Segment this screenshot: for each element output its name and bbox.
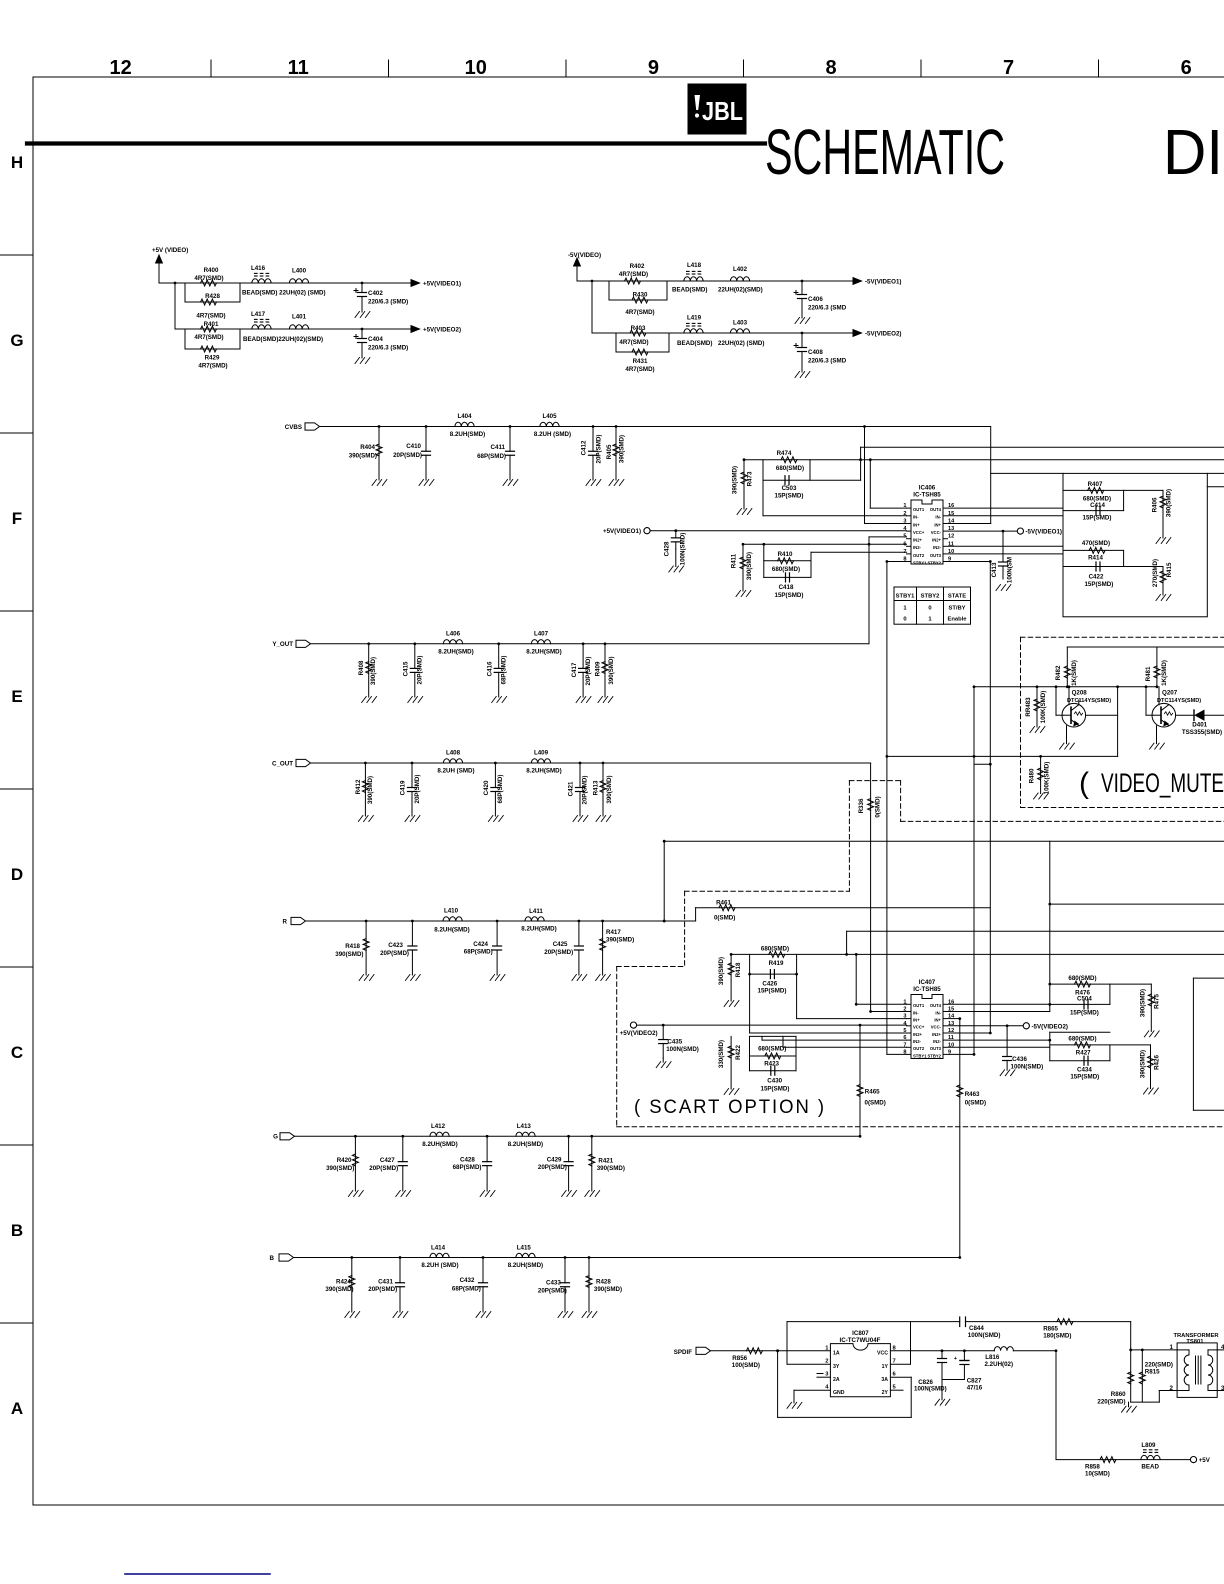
svg-text:C434: C434 [1077,1067,1092,1074]
svg-text:L404: L404 [457,413,472,420]
svg-text:IN2+: IN2+ [913,1032,923,1037]
svg-text:20P(SMD): 20P(SMD) [368,1286,397,1293]
svg-text:OUT2: OUT2 [913,553,925,558]
svg-text:R431: R431 [633,358,648,365]
svg-text:390(SMD): 390(SMD) [594,1286,622,1293]
svg-text:390(SMD): 390(SMD) [619,435,626,463]
svg-text:220/6.3 (SMD): 220/6.3 (SMD) [368,299,408,306]
svg-text:L407: L407 [534,630,549,637]
svg-text:100N(SM: 100N(SM [1007,557,1014,583]
svg-text:10(SMD): 10(SMD) [1085,1471,1110,1478]
svg-text:D401: D401 [1192,722,1207,729]
svg-text:1: 1 [928,617,932,623]
svg-text:L413: L413 [517,1123,532,1130]
svg-text:R461: R461 [716,900,731,907]
svg-text:3A: 3A [881,1377,888,1383]
svg-text:22UH(02) (SMD): 22UH(02) (SMD) [718,340,764,347]
svg-text:2: 2 [1170,1385,1174,1392]
svg-text:L412: L412 [431,1123,446,1130]
svg-text:IN2-: IN2- [933,1039,942,1044]
svg-text:C433: C433 [546,1279,561,1286]
svg-text:15P(SMD): 15P(SMD) [775,493,804,500]
svg-text:R427: R427 [1076,1050,1091,1057]
svg-text:(: ( [1079,767,1089,800]
svg-text:470(SMD): 470(SMD) [1082,540,1110,547]
svg-text:220/6.3 (SMD: 220/6.3 (SMD [808,358,847,365]
svg-text:4R7(SMD): 4R7(SMD) [619,271,648,278]
svg-text:L415: L415 [517,1245,532,1252]
svg-text:R473: R473 [747,471,754,486]
svg-text:220(SMD): 220(SMD) [1145,1362,1173,1369]
svg-text:C428: C428 [460,1156,475,1163]
svg-text:R408: R408 [358,660,365,675]
svg-text:R336: R336 [858,798,865,813]
svg-text:R856: R856 [732,1355,747,1362]
svg-text:R411: R411 [731,553,738,568]
svg-text:C430: C430 [767,1078,782,1085]
svg-text:TRANSFORMER: TRANSFORMER [1173,1333,1219,1339]
svg-text:R424: R424 [336,1278,351,1285]
svg-text:C408: C408 [808,349,823,356]
svg-text:100N(SMD): 100N(SMD) [680,533,687,566]
svg-text:STBY1: STBY1 [913,560,927,565]
svg-text:BEAD(SMD) 22UH(02) (SMD): BEAD(SMD) 22UH(02) (SMD) [242,290,326,297]
svg-text:68P(SMD): 68P(SMD) [477,453,506,460]
svg-text:VCC+: VCC+ [913,1025,925,1030]
svg-text:R401: R401 [204,321,219,328]
svg-text:L816: L816 [985,1354,1000,1361]
svg-text:20P(SMD): 20P(SMD) [544,949,573,956]
svg-text:C421: C421 [568,781,575,796]
svg-text:4R7(SMD): 4R7(SMD) [194,334,223,341]
svg-text:R414: R414 [1088,555,1103,562]
svg-text:L402: L402 [733,266,748,273]
svg-text:100N(SMD): 100N(SMD) [1011,1064,1044,1071]
svg-text:OUT2: OUT2 [913,1046,925,1051]
svg-text:OUT3: OUT3 [930,553,942,558]
svg-text:4R7(SMD): 4R7(SMD) [625,366,654,373]
svg-text:8.2UH(SMD): 8.2UH(SMD) [422,1141,457,1148]
svg-text:7: 7 [893,1359,896,1365]
svg-text:390(SMD): 390(SMD) [718,957,725,985]
svg-text:47/16: 47/16 [967,1385,983,1392]
svg-text:STBY2: STBY2 [928,560,942,565]
svg-text:-5V(VIDEO2): -5V(VIDEO2) [865,331,901,338]
svg-text:C424: C424 [473,941,488,948]
svg-text:( SCART OPTION ): ( SCART OPTION ) [634,1097,826,1118]
svg-text:IC407: IC407 [919,979,936,986]
svg-text:C427: C427 [380,1157,395,1164]
svg-text:L409: L409 [534,750,549,757]
svg-text:390(SMD): 390(SMD) [1139,989,1146,1017]
svg-text:C413: C413 [991,562,998,577]
svg-text:R860: R860 [1111,1391,1126,1398]
svg-text:100N(SMD): 100N(SMD) [666,1046,699,1053]
svg-text:12: 12 [109,57,131,79]
svg-text:0(SMD): 0(SMD) [875,796,882,817]
svg-text:+5V: +5V [1199,1457,1211,1464]
svg-text:E: E [11,687,22,706]
svg-text:20P(SMD): 20P(SMD) [596,435,603,464]
svg-text:R421: R421 [598,1158,613,1165]
svg-text:680(SMD): 680(SMD) [772,566,800,573]
svg-text:R403: R403 [631,325,646,332]
svg-text:TS801: TS801 [1186,1339,1204,1345]
svg-text:R430: R430 [633,292,648,299]
svg-text:15P(SMD): 15P(SMD) [1070,1010,1099,1017]
svg-text:0: 0 [928,606,931,612]
svg-text:0(SMD): 0(SMD) [714,915,735,922]
svg-text:100N(SMD): 100N(SMD) [914,1386,947,1393]
svg-text:STBY1: STBY1 [896,594,915,600]
svg-text:L405: L405 [542,413,557,420]
svg-text:C436: C436 [1012,1056,1027,1063]
svg-text:G: G [10,331,23,350]
svg-text:C420: C420 [483,780,490,795]
svg-text:IN2+: IN2+ [932,1032,942,1037]
svg-text:Enable: Enable [947,617,967,623]
svg-text:1: 1 [903,606,907,612]
svg-text:L410: L410 [444,908,459,915]
svg-text:68P(SMD): 68P(SMD) [453,1164,482,1171]
svg-text:330(SMD): 330(SMD) [718,1040,725,1068]
svg-text:20P(SMD): 20P(SMD) [538,1164,567,1171]
svg-text:STBY2: STBY2 [921,594,940,600]
svg-text:F: F [12,509,22,528]
svg-text:L408: L408 [446,750,461,757]
svg-text:2Y: 2Y [882,1390,889,1396]
svg-text:68P(SMD): 68P(SMD) [500,656,507,685]
svg-text:C423: C423 [388,942,403,949]
svg-text:TSS355(SMD): TSS355(SMD) [1182,729,1222,736]
svg-text:RR483: RR483 [1025,697,1032,717]
svg-text:DTC114YS(SMD): DTC114YS(SMD) [1157,698,1201,704]
svg-text:15P(SMD): 15P(SMD) [775,592,804,599]
svg-text:10: 10 [465,57,487,79]
svg-text:1K(SMD): 1K(SMD) [1071,660,1078,686]
svg-text:STBY1: STBY1 [913,1053,927,1058]
svg-text:C410: C410 [406,443,421,450]
svg-text:R428: R428 [596,1278,611,1285]
svg-text:+: + [954,1356,957,1362]
svg-text:R: R [283,918,288,925]
svg-text:680(SMD): 680(SMD) [761,946,789,953]
svg-text:390(SMD): 390(SMD) [326,1165,354,1172]
svg-text:L400: L400 [292,268,307,275]
svg-text:180(SMD): 180(SMD) [1043,1333,1071,1340]
svg-text:+5V(VIDEO1): +5V(VIDEO1) [423,281,461,288]
svg-text:390(SMD): 390(SMD) [1166,489,1173,517]
svg-text:R426: R426 [1154,1055,1161,1070]
svg-text:20P(SMD): 20P(SMD) [393,452,422,459]
svg-text:R480: R480 [1029,768,1036,783]
svg-text:R409: R409 [595,661,602,676]
svg-text:R413: R413 [593,780,600,795]
svg-text:0(SMD): 0(SMD) [965,1100,986,1107]
svg-text:R815: R815 [1145,1369,1160,1376]
svg-text:L416: L416 [251,265,266,272]
svg-text:IC406: IC406 [919,485,936,492]
svg-text:IN2+: IN2+ [932,538,942,543]
svg-text:C844: C844 [969,1325,984,1332]
svg-text:C827: C827 [967,1378,982,1385]
svg-text:L419: L419 [687,315,702,322]
svg-text:15P(SMD): 15P(SMD) [761,1086,790,1093]
svg-text:22UH(02)(SMD): 22UH(02)(SMD) [718,287,763,294]
svg-text:L403: L403 [733,320,748,327]
svg-text:DI: DI [1163,116,1223,188]
svg-text:STBY2: STBY2 [928,1053,942,1058]
svg-text:JBL: JBL [702,96,743,126]
svg-text:680(SMD): 680(SMD) [1068,975,1096,982]
svg-text:68P(SMD): 68P(SMD) [452,1285,481,1292]
svg-text:IN2+: IN2+ [913,538,923,543]
svg-text:+5V(VIDEO2): +5V(VIDEO2) [620,1030,658,1037]
svg-text:Q207: Q207 [1162,690,1178,697]
svg-text:11: 11 [288,57,309,79]
svg-text:100K(SMD): 100K(SMD) [1040,691,1047,724]
svg-text:A: A [11,1399,23,1418]
svg-text:R412: R412 [355,779,362,794]
svg-text:8: 8 [825,57,836,79]
svg-text:R410: R410 [778,551,793,558]
svg-text:R418: R418 [735,962,742,977]
svg-text:20P(SMD): 20P(SMD) [417,656,424,685]
svg-text:C428: C428 [664,541,671,556]
svg-text:ST/BY: ST/BY [948,606,965,612]
svg-text:680(SMD): 680(SMD) [776,465,804,472]
svg-text:+5V(VIDEO1): +5V(VIDEO1) [603,528,641,535]
svg-text:L418: L418 [687,262,702,269]
svg-text:L417: L417 [251,311,266,318]
svg-text:390(SMD): 390(SMD) [597,1165,625,1172]
svg-text:1: 1 [1170,1344,1174,1351]
svg-text:OUT1: OUT1 [913,507,925,512]
svg-text:IN-: IN- [913,1010,919,1015]
svg-text:8.2UH(SMD): 8.2UH(SMD) [438,648,473,655]
svg-text:R417: R417 [606,929,621,936]
svg-text:VCC+: VCC+ [913,530,925,535]
svg-text:C422: C422 [1089,574,1104,581]
svg-text:2A: 2A [833,1377,840,1383]
svg-text:OUT1: OUT1 [913,1003,925,1008]
svg-text:C504: C504 [1077,995,1092,1002]
svg-text:-5V(VIDEO): -5V(VIDEO) [568,252,601,259]
svg-text:8.2UH (SMD): 8.2UH (SMD) [421,1262,458,1269]
svg-text:8.2UH(SMD): 8.2UH(SMD) [450,431,485,438]
svg-text:C416: C416 [487,661,494,676]
svg-text:L401: L401 [292,314,307,321]
svg-text:BEAD(SMD)22UH(02)(SMD): BEAD(SMD)22UH(02)(SMD) [243,336,323,343]
svg-text:R428: R428 [205,293,220,300]
svg-text:4R7(SMD): 4R7(SMD) [194,275,223,282]
svg-text:R418: R418 [345,943,360,950]
svg-text:C_OUT: C_OUT [272,760,293,767]
svg-text:IN+: IN+ [934,522,941,527]
svg-text:STATE: STATE [948,594,966,600]
svg-text:R407: R407 [1088,481,1103,488]
svg-text:R423: R423 [764,1061,779,1068]
svg-text:BEAD: BEAD [1141,1464,1159,1471]
svg-text:390(SMD): 390(SMD) [367,776,374,804]
svg-text:15P(SMD): 15P(SMD) [1070,1074,1099,1081]
svg-text:B: B [11,1221,23,1240]
svg-text:R420: R420 [337,1157,352,1164]
svg-text:C417: C417 [571,662,578,677]
svg-text:R422: R422 [735,1045,742,1060]
svg-text:C426: C426 [762,981,777,988]
svg-text:R858: R858 [1085,1464,1100,1471]
svg-text:-5V(VIDEO1): -5V(VIDEO1) [865,279,901,286]
svg-text:C404: C404 [368,336,383,343]
svg-text:20P(SMD): 20P(SMD) [380,950,409,957]
svg-text:R474: R474 [777,450,792,457]
svg-text:4R7(SMD): 4R7(SMD) [196,313,225,320]
svg-text:100N(SMD): 100N(SMD) [968,1332,1001,1339]
svg-text:220/6.3 (SMD: 220/6.3 (SMD [808,305,847,312]
svg-text:IN-: IN- [913,515,919,520]
svg-text:+5V(VIDEO2): +5V(VIDEO2) [423,327,461,334]
svg-text:20P(SMD): 20P(SMD) [414,775,421,804]
svg-text:68P(SMD): 68P(SMD) [464,948,493,955]
svg-text:+5V (VIDEO): +5V (VIDEO) [152,247,188,254]
svg-text:C415: C415 [403,661,410,676]
svg-text:SCHEMATIC: SCHEMATIC [765,116,1005,188]
svg-text:C414: C414 [1090,502,1105,509]
svg-text:VCC: VCC [877,1351,888,1357]
svg-text:OUT3: OUT3 [930,1046,942,1051]
svg-text:IN+: IN+ [913,522,920,527]
svg-text:12: 12 [948,534,954,540]
svg-text:680(SMD): 680(SMD) [758,1046,786,1053]
svg-text:OUT4: OUT4 [930,507,942,512]
svg-text:BEAD(SMD): BEAD(SMD) [677,340,712,347]
svg-text:270(SMD): 270(SMD) [1152,559,1159,587]
svg-text:C429: C429 [547,1156,562,1163]
svg-text:GND: GND [833,1390,845,1396]
svg-text:390(SMD): 390(SMD) [1139,1050,1146,1078]
svg-text:C435: C435 [667,1039,682,1046]
svg-text:C406: C406 [808,296,823,303]
svg-text:390(SMD): 390(SMD) [325,1286,353,1293]
svg-text:15P(SMD): 15P(SMD) [1084,581,1113,588]
svg-text:C431: C431 [378,1278,393,1285]
svg-text:220(SMD): 220(SMD) [1097,1399,1125,1406]
svg-text:IN2-: IN2- [913,545,922,550]
svg-text:0(SMD): 0(SMD) [865,1100,886,1107]
svg-text:3Y: 3Y [833,1364,840,1370]
svg-text:390(SMD): 390(SMD) [335,951,363,958]
svg-text:8.2UH (SMD): 8.2UH (SMD) [534,431,571,438]
svg-text:CVBS: CVBS [285,424,302,431]
svg-text:390(SMD): 390(SMD) [606,937,634,944]
svg-text:390(SMD): 390(SMD) [746,552,753,580]
svg-text:C: C [11,1043,23,1062]
svg-text:390(SMD): 390(SMD) [606,775,613,803]
svg-text:IN+: IN+ [934,1018,941,1023]
svg-text:20P(SMD): 20P(SMD) [369,1165,398,1172]
svg-text:20P(SMD): 20P(SMD) [582,776,589,805]
svg-text:20P(SMD): 20P(SMD) [585,657,592,686]
svg-text:1K(SMD): 1K(SMD) [1161,660,1168,686]
svg-text:G: G [273,1134,278,1141]
svg-text:1Y: 1Y [882,1364,889,1370]
svg-text:C432: C432 [460,1277,475,1284]
svg-text:VCC-: VCC- [931,1025,942,1030]
svg-text:15P(SMD): 15P(SMD) [1083,515,1112,522]
svg-text:1A: 1A [833,1351,840,1357]
svg-text:L809: L809 [1141,1442,1156,1449]
svg-text:390(SMD): 390(SMD) [608,656,615,684]
svg-text:4R7(SMD): 4R7(SMD) [198,363,227,370]
svg-text:D: D [11,865,23,884]
svg-text:C411: C411 [491,444,506,451]
svg-text:4R7(SMD): 4R7(SMD) [619,339,648,346]
svg-text:8.2UH(SMD): 8.2UH(SMD) [526,648,561,655]
svg-text:IC-TSH85: IC-TSH85 [913,492,941,499]
svg-text:B: B [270,1255,275,1262]
svg-text:R406: R406 [1152,497,1159,512]
svg-text:IC-TSH85: IC-TSH85 [913,986,941,993]
svg-text:2.2UH(02): 2.2UH(02) [985,1361,1014,1368]
svg-text:9: 9 [648,57,659,79]
svg-text:C425: C425 [553,941,568,948]
svg-text:8.2UH(SMD): 8.2UH(SMD) [521,925,556,932]
svg-text:8.2UH(SMD): 8.2UH(SMD) [508,1262,543,1269]
svg-text:8.2UH(SMD): 8.2UH(SMD) [508,1141,543,1148]
svg-text:4R7(SMD): 4R7(SMD) [625,309,654,316]
svg-text:L411: L411 [529,908,543,915]
svg-text:Q208: Q208 [1072,690,1088,697]
svg-text:R400: R400 [204,267,219,274]
svg-text:R475: R475 [1154,994,1161,1009]
svg-text:680(SMD): 680(SMD) [1068,1036,1096,1043]
svg-text:15P(SMD): 15P(SMD) [758,988,787,995]
svg-text:VIDEO_MUTE: VIDEO_MUTE [1101,768,1224,798]
svg-text:IN2-: IN2- [933,545,942,550]
svg-text:L406: L406 [446,630,461,637]
svg-text:-5V(VIDEO1): -5V(VIDEO1) [1026,529,1062,536]
svg-text:OUT4: OUT4 [930,1003,942,1008]
svg-text:20P(SMD): 20P(SMD) [538,1287,567,1294]
svg-text:2: 2 [825,1359,828,1365]
svg-text:R481: R481 [1145,666,1152,681]
svg-text:C412: C412 [581,440,588,455]
svg-text:390(SMD): 390(SMD) [370,657,377,685]
svg-text:390(SMD): 390(SMD) [732,466,739,494]
svg-text:R465: R465 [865,1089,880,1096]
svg-text:C418: C418 [779,584,794,591]
svg-text:R404: R404 [360,444,375,451]
svg-text:SPDIF: SPDIF [674,1349,692,1356]
svg-text:C419: C419 [400,780,407,795]
svg-text:DTC114YS(SMD): DTC114YS(SMD) [1067,698,1111,704]
svg-text:220/6.3 (SMD): 220/6.3 (SMD) [368,345,408,352]
svg-text:0: 0 [903,617,906,623]
svg-text:IN-: IN- [935,515,941,520]
svg-text:8.2UH(SMD): 8.2UH(SMD) [526,768,561,775]
svg-text:68P(SMD): 68P(SMD) [497,775,504,804]
svg-text:L414: L414 [431,1245,446,1252]
svg-text:8.2UH(SMD): 8.2UH(SMD) [434,926,469,933]
svg-text:H: H [11,153,23,172]
svg-text:IN-: IN- [935,1010,941,1015]
svg-text:IN2-: IN2- [913,1039,922,1044]
svg-text:R463: R463 [965,1091,980,1098]
svg-text:IC-TC7WU04F: IC-TC7WU04F [840,1337,881,1344]
svg-text:R402: R402 [630,263,645,270]
svg-text:-5V(VIDEO2): -5V(VIDEO2) [1032,1023,1068,1030]
